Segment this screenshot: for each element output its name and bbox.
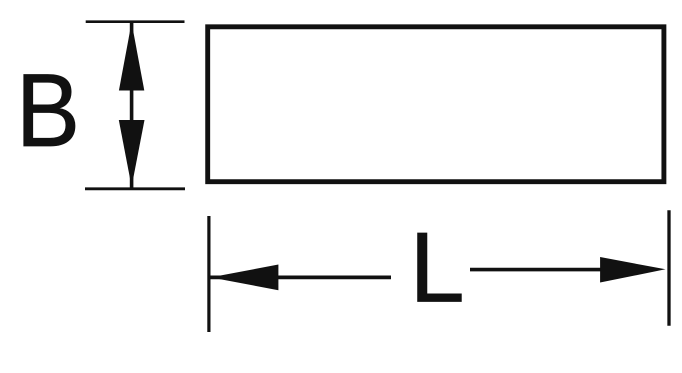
right arrowhead (L dimension) <box>600 257 665 283</box>
right half of horizontal dimension line (L) <box>470 268 601 272</box>
up arrowhead (B dimension) <box>119 23 144 91</box>
left half of horizontal dimension line (L) <box>211 276 392 280</box>
bottom tick line (B dimension) <box>85 187 185 190</box>
rectangle (flat bar outline) <box>208 27 664 182</box>
svg-text:L: L <box>410 212 465 323</box>
left arrowhead (L dimension) <box>211 265 279 291</box>
vertical dimension line (B) <box>130 23 134 189</box>
right extension line (L dimension) <box>667 210 670 325</box>
down arrowhead (B dimension) <box>119 120 145 187</box>
top tick line (B dimension) <box>86 20 185 23</box>
left extension line (L dimension) <box>207 216 210 332</box>
svg-text:B: B <box>16 53 80 169</box>
